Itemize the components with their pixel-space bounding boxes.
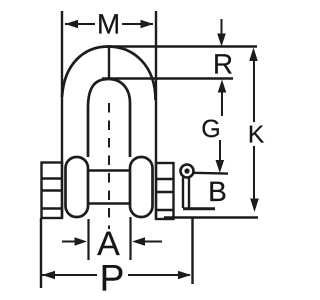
G top arrow shaft: [221, 92, 223, 116]
cotter pin handle line / G-B boundary line: [193, 172, 229, 175]
K dimension shaft lower: [253, 146, 255, 200]
shackle bow inner opening: [88, 79, 130, 157]
P dimension line right segment: [128, 274, 190, 276]
top extension line (top of bow, R/K datum): [107, 45, 257, 47]
A right extension bar: [129, 217, 131, 260]
P dimension line left segment: [42, 274, 97, 276]
svg-text:B: B: [208, 176, 227, 207]
cotter pin ring center dot: [184, 168, 189, 173]
svg-text:P: P: [100, 258, 125, 299]
K bottom extension line: [164, 216, 258, 218]
P left extension line: [40, 218, 42, 288]
R lower extension line (top of inner opening): [102, 77, 233, 79]
wire left outer edge / M left extension line: [61, 11, 63, 218]
M right arrowhead: [141, 20, 154, 29]
shackle bow outer arch: [62, 47, 156, 101]
cotter pin shank: [182, 178, 184, 209]
M left arrowhead: [65, 20, 78, 29]
A left arrowhead pointing right: [75, 237, 88, 245]
P left arrowhead: [42, 271, 55, 280]
svg-text:R: R: [213, 49, 233, 80]
A dimension right arrow tail: [145, 241, 162, 243]
cotter pin foot: [183, 207, 215, 210]
nut (right hatched ladder): [156, 163, 174, 219]
dimension M line left segment: [65, 23, 95, 25]
A right arrowhead pointing left: [132, 237, 145, 245]
right eye (stadium): [130, 157, 153, 217]
P right extension line: [191, 218, 193, 285]
svg-text:K: K: [248, 122, 265, 149]
centerline solid top segment: [108, 47, 110, 79]
centerline dashed: [108, 103, 110, 229]
K bottom down arrowhead: [250, 199, 259, 213]
G bottom arrow shaft: [219, 140, 221, 161]
R top arrow shaft: [221, 19, 223, 35]
dimension M line right segment: [122, 23, 153, 25]
wire right outer edge / M right extension line: [155, 11, 157, 219]
G bottom down arrowhead: [216, 160, 225, 173]
P right arrowhead: [178, 271, 191, 280]
A left extension bar: [87, 219, 89, 260]
bolt shaft between legs: [88, 169, 130, 171]
A dimension left arrow tail: [62, 241, 75, 243]
svg-text:G: G: [201, 115, 220, 143]
svg-text:M: M: [97, 9, 120, 40]
cotter pin ring: [181, 165, 194, 178]
K top up arrowhead: [249, 48, 258, 62]
bolt head (left hatched ladder): [42, 163, 63, 219]
left eye (stadium): [66, 157, 89, 217]
K dimension shaft upper: [253, 60, 255, 122]
G top up arrowhead: [218, 80, 227, 93]
R top down arrowhead: [217, 34, 226, 47]
